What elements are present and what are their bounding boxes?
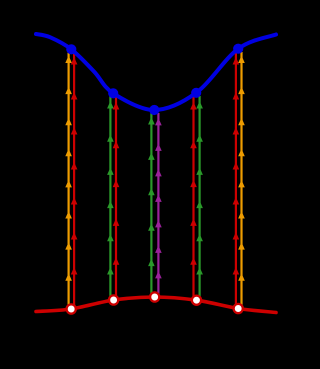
top curve (blue valley curve) [36, 34, 276, 110]
point P1 on top curve (blue dot) [66, 44, 76, 54]
point Q4 on bottom curve (white dot) [192, 296, 201, 305]
point Q3 on bottom curve (white dot) [150, 292, 159, 301]
point P4 on top curve (blue dot) [191, 88, 201, 98]
point Q1 on bottom curve (white dot) [67, 304, 76, 313]
flow line L1 orange (leftmost column, outer) [65, 52, 72, 306]
flow line L4 green (fourth column, outer) [196, 96, 203, 297]
flow line L2 red (second column, inner) [113, 96, 120, 297]
point Q5 on bottom curve (white dot) [234, 304, 243, 313]
flow line L3 green (middle column, left) [148, 113, 155, 294]
point P3 on top curve (blue dot) [149, 105, 159, 115]
flow line L1 red (leftmost column, inner) [71, 52, 78, 306]
flow line L2 green (second column, outer) [107, 96, 114, 297]
point Q2 on bottom curve (white dot) [109, 295, 118, 304]
flow line L3 purple (middle column, right) [155, 113, 162, 294]
flow line L5 orange (rightmost column, outer) [238, 52, 245, 305]
point P5 on top curve (blue dot) [233, 44, 243, 54]
point P2 on top curve (blue dot) [108, 88, 118, 98]
bottom curve (red arch curve) [36, 297, 276, 313]
flow line L4 red (fourth column, inner) [190, 96, 197, 297]
flow line L5 red (rightmost column, inner) [233, 52, 240, 305]
